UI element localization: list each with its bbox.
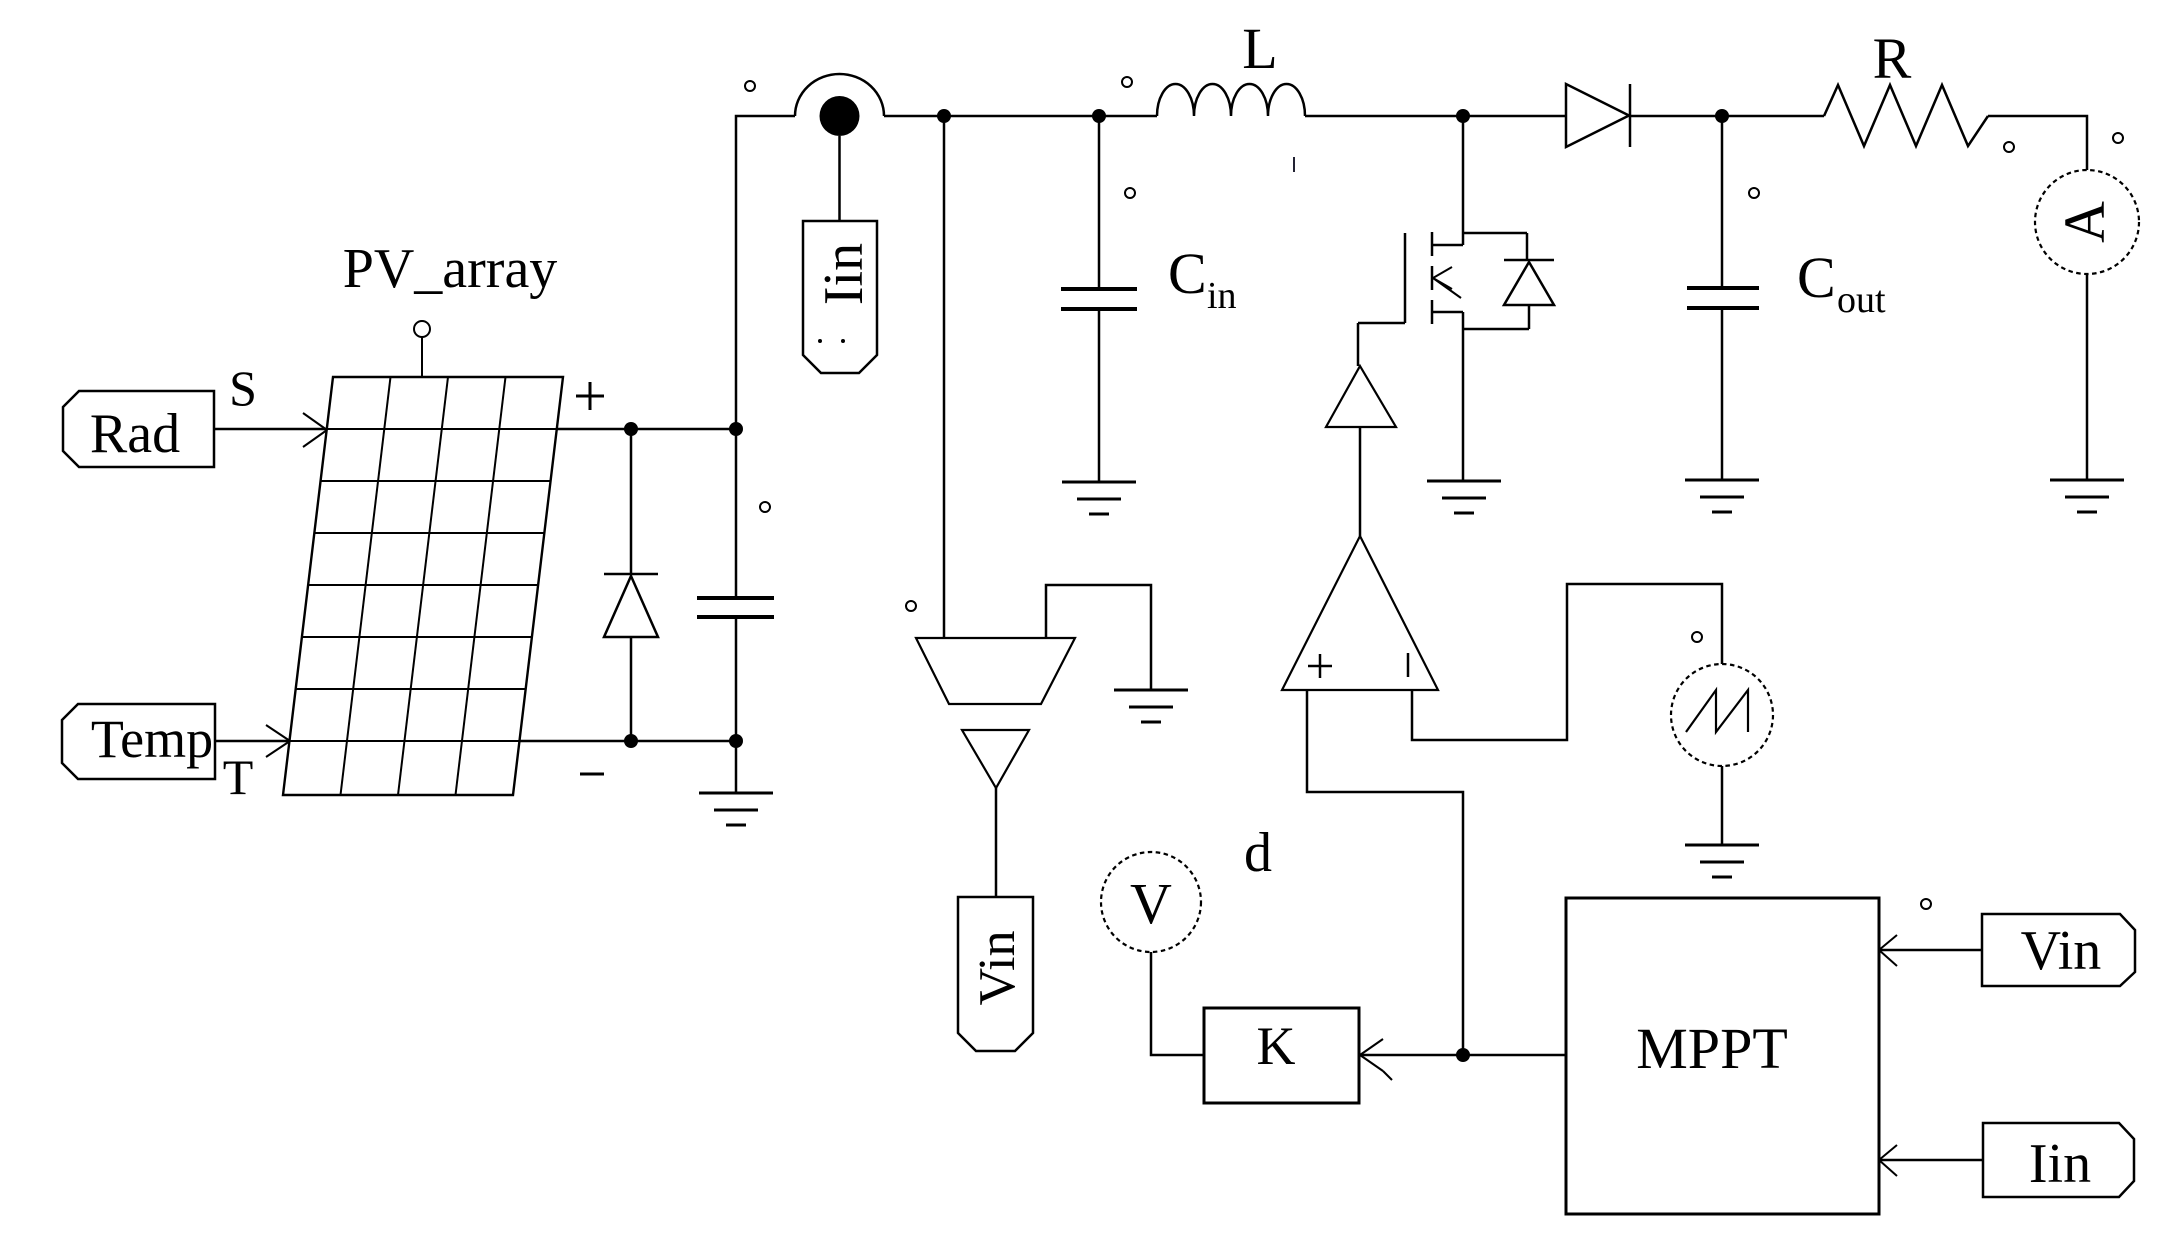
wire sensor to Iin flag [838, 136, 841, 221]
svg-text:T: T [223, 749, 254, 805]
MOSFET Q1 source lead [1432, 312, 1463, 481]
wire buffer to Vin flag [995, 788, 998, 897]
wire comparator output to driver [1359, 427, 1362, 536]
sense buffer [962, 730, 1029, 788]
input flag Iin (MPPT) [1983, 1123, 2134, 1197]
ground (MOSFET source) [1427, 481, 1501, 513]
junction node + rail at diode [624, 422, 638, 436]
svg-text:PV_array: PV_array [343, 238, 558, 300]
gate driver buffer [1326, 366, 1396, 427]
wire voltmeter to K [1151, 952, 1204, 1055]
capacitor Cout [1687, 116, 1759, 480]
svg-text:Rad: Rad [90, 403, 180, 465]
sawtooth generator [1671, 664, 1773, 766]
arrowhead T input [266, 725, 290, 757]
MPPT block [1566, 898, 1879, 1214]
wire MPPT to K [1360, 1054, 1566, 1057]
wire PV - rail [519, 740, 736, 743]
MOSFET Q1 channel bars [1431, 232, 1434, 324]
wire comparator - input from sawtooth [1412, 584, 1722, 740]
wire top bus (diode to resistor) [1630, 115, 1824, 118]
svg-text:A: A [2052, 201, 2117, 243]
wire Iin flag to MPPT [1879, 1159, 1983, 1162]
capacitor Cin [1061, 116, 1137, 482]
svg-text:C: C [1168, 241, 1207, 306]
bypass diode across PV [604, 429, 658, 741]
ammeter A [2035, 170, 2139, 274]
boost diode [1566, 84, 1630, 147]
port marker o (top right corner) [2113, 133, 2123, 143]
junction node - rail at cap [729, 734, 743, 748]
input flag Temp [62, 704, 215, 779]
comparator U1 [1282, 536, 1438, 690]
dots inside Iin flag [818, 339, 822, 343]
junction node - rail at diode [624, 734, 638, 748]
MOSFET Q1 drain lead [1432, 116, 1527, 260]
wire left riser to top bus [736, 116, 795, 429]
wire Temp to PV T pin [215, 740, 289, 743]
port marker o (voltage sensor) [906, 601, 916, 611]
wire Vin flag to MPPT [1879, 949, 1982, 952]
svg-text:d: d [1244, 822, 1272, 884]
solar panel PV_array [283, 377, 563, 795]
inductor L [1157, 84, 1305, 116]
port marker o (MPPT Vin) [1921, 899, 1931, 909]
port marker o (sawtooth) [1692, 632, 1702, 642]
svg-text:S: S [229, 360, 257, 416]
ground (ammeter) [2050, 480, 2124, 512]
wire voltage sensor - input to ground [1046, 585, 1151, 690]
junction node voltage sense tap [937, 109, 951, 123]
ground (Cout) [1685, 480, 1759, 512]
arrowhead into K [1360, 1039, 1392, 1080]
svg-text:R: R [1873, 26, 1912, 91]
current sensor arc [795, 74, 884, 116]
svg-text:out: out [1837, 279, 1886, 321]
artifact dash [1293, 157, 1295, 172]
port marker o (left riser) [760, 502, 770, 512]
sawtooth wave symbol [1686, 690, 1748, 732]
wire output corner to ammeter [1988, 116, 2087, 170]
svg-text:Vin: Vin [2021, 920, 2102, 982]
svg-text:L: L [1242, 16, 1277, 81]
wire top bus (inductor to diode) [1305, 115, 1566, 118]
ground (Cin) [1062, 482, 1136, 514]
ground (sawtooth) [1685, 845, 1759, 877]
svg-text:V: V [1130, 871, 1172, 936]
junction node Cin tap [1092, 109, 1106, 123]
arrowhead into MPPT (Vin) [1879, 935, 1897, 966]
port marker o (inductor left) [1122, 77, 1132, 87]
wire Rad to PV S pin [214, 428, 326, 431]
MOSFET Q1 body arrow [1433, 267, 1461, 298]
label + (comparator) [1308, 654, 1332, 678]
input flag Rad [63, 391, 214, 467]
voltage sensor trapezoid [916, 638, 1075, 704]
wire PV + rail [556, 428, 736, 431]
svg-text:Temp: Temp [91, 709, 213, 769]
voltmeter V [1101, 852, 1201, 952]
ground (voltage sensor) [1114, 690, 1188, 722]
port marker o (resistor right) [2004, 142, 2014, 152]
sensor output flag Iin [803, 221, 877, 373]
svg-text:Vin: Vin [969, 931, 1026, 1006]
junction node + rail at riser [729, 422, 743, 436]
junction node d output [1456, 1048, 1470, 1062]
port marker o (Cin) [1125, 188, 1135, 198]
junction node MOSFET drain [1456, 109, 1470, 123]
wire ammeter to ground [2086, 274, 2089, 480]
svg-text:Iin: Iin [813, 243, 875, 305]
resistor R [1824, 85, 1988, 146]
svg-text:C: C [1797, 245, 1836, 310]
label - (comparator, rotated) [1407, 653, 1410, 677]
label - (PV negative terminal) [580, 773, 604, 776]
svg-text:MPPT: MPPT [1636, 1016, 1788, 1081]
sense output flag Vin [958, 897, 1033, 1051]
current sensor dot [820, 96, 860, 136]
wire top bus (sensor to inductor) [884, 115, 1157, 118]
wire tap to voltage sensor [943, 116, 946, 638]
port marker o (Cout) [1749, 188, 1759, 198]
wire sawtooth to ground [1721, 766, 1724, 845]
junction node Cout tap [1715, 109, 1729, 123]
arrowhead into MPPT (Iin) [1879, 1145, 1897, 1176]
ground (PV) [699, 793, 773, 825]
wire comparator + input from d node [1307, 690, 1463, 1055]
svg-text:in: in [1207, 275, 1237, 317]
gain block K [1204, 1008, 1359, 1103]
capacitor across PV terminals [697, 429, 774, 793]
label + (PV positive terminal) [576, 382, 604, 410]
input flag Vin (MPPT) [1982, 914, 2135, 986]
body diode of MOSFET [1463, 260, 1554, 329]
MOSFET Q1 gate [1358, 233, 1405, 366]
PV_array top pin circle [414, 321, 430, 377]
arrowhead S input [303, 413, 327, 447]
svg-text:K: K [1257, 1016, 1296, 1076]
svg-text:Iin: Iin [2029, 1133, 2091, 1195]
port marker o (top left) [745, 81, 755, 91]
